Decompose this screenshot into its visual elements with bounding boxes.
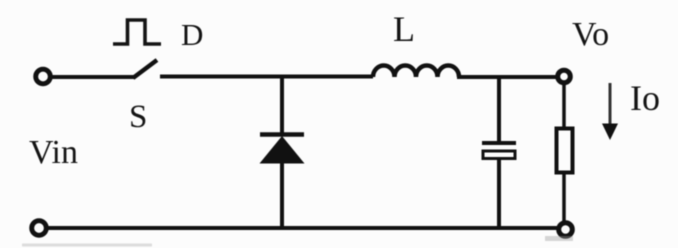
svg-text:D: D	[181, 17, 203, 52]
svg-text:Vo: Vo	[572, 16, 609, 53]
svg-text:Io: Io	[630, 78, 660, 118]
svg-text:Vin: Vin	[29, 134, 78, 171]
svg-text:L: L	[393, 9, 415, 49]
svg-text:S: S	[129, 99, 147, 135]
